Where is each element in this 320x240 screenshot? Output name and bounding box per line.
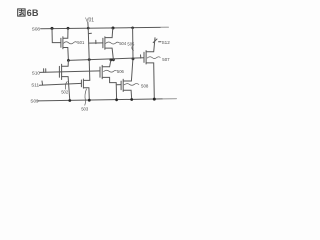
tick on S11 wire xyxy=(41,81,44,85)
svg-text:V01: V01 xyxy=(85,17,94,23)
501 gate bar xyxy=(60,38,62,47)
svg-text:504: 504 xyxy=(119,41,127,46)
node dot bottom rail at 502 source xyxy=(68,99,71,102)
wire S08 / top rail V01 xyxy=(41,27,169,28)
wire output node vertical (top rail to rail2 to 503 drain) xyxy=(88,28,90,80)
transistor Q501 xyxy=(52,28,68,60)
504 channel bar xyxy=(104,37,106,50)
node dot rail2 at 505/508 vertical xyxy=(132,58,135,61)
svg-text:502: 502 xyxy=(61,90,69,95)
506 drain arm xyxy=(102,60,111,67)
wire 507 gate from rail2 xyxy=(143,57,145,59)
501 source arm xyxy=(63,48,68,61)
502 gate bar xyxy=(58,66,60,77)
leader squiggle 507 xyxy=(147,57,160,59)
node dot bottom rail at 507 source xyxy=(153,98,156,101)
wire fade bottom rail right end xyxy=(163,98,177,100)
504 gate bar xyxy=(102,38,104,47)
504 drain arm xyxy=(105,28,113,37)
502 source arm xyxy=(62,77,70,101)
507 gate bar xyxy=(143,52,145,62)
503 drain arm xyxy=(84,79,90,81)
svg-text:505: 505 xyxy=(127,42,135,47)
node dot top rail at 505 vertical xyxy=(131,27,134,30)
node dot top rail at 501 gate tap xyxy=(51,27,54,30)
node dot rail2 at 501/502 xyxy=(67,59,70,62)
transistor Q507 xyxy=(144,38,155,99)
tick on 507 gate wire xyxy=(140,55,142,58)
wire fade top rail right end xyxy=(161,26,169,28)
wire 504 gate tap xyxy=(89,42,103,44)
leader squiggle 506 xyxy=(104,70,117,72)
svg-text:508: 508 xyxy=(141,84,149,89)
svg-text:503: 503 xyxy=(81,107,89,112)
tick pair on S10 wire xyxy=(43,69,45,73)
svg-text:6B: 6B xyxy=(27,8,39,18)
508 source arm xyxy=(123,90,131,99)
leader 502 xyxy=(65,82,67,90)
transistor Q503 xyxy=(81,79,89,100)
leader squiggle 501 xyxy=(64,42,77,44)
507 drain arm to S12 stub xyxy=(146,38,155,52)
wire 501 gate from S08 tap xyxy=(52,28,61,42)
502 channel bar xyxy=(61,64,63,79)
node dot top rail at 501 drain xyxy=(67,27,70,30)
506 source arm with jog xyxy=(102,77,116,99)
508 drain arm xyxy=(123,59,133,81)
wire S11 to 503 gate xyxy=(39,83,81,85)
node dot top rail at output node vertical xyxy=(87,27,90,30)
leader squiggle 508 xyxy=(124,84,139,86)
node dot rail2 at 506 drain xyxy=(110,59,113,62)
transistor Q506 xyxy=(100,60,117,100)
504 source arm xyxy=(105,48,113,60)
wire 508 gate tap xyxy=(116,84,121,86)
node dot rail2 at 504 source xyxy=(112,58,115,61)
503 source arm xyxy=(84,88,90,101)
leader squiggle 505 xyxy=(132,47,134,51)
title 图6B xyxy=(18,9,25,16)
503 gate bar xyxy=(80,80,82,87)
node dot bottom rail at 503 source xyxy=(88,99,91,102)
tick on 504 gate wire xyxy=(95,40,97,43)
501 channel bar xyxy=(62,37,64,49)
wire S10 to gates of 502 and 506 xyxy=(40,71,100,73)
transistor Q508 xyxy=(121,59,133,99)
node dot rail2 at 503 drain vertical xyxy=(88,58,91,61)
svg-text:S10: S10 xyxy=(32,70,41,75)
506 gate bar xyxy=(99,67,101,77)
dash before S12 xyxy=(159,41,161,43)
wire second rail (output node) xyxy=(68,58,143,61)
wire S09 bottom rail xyxy=(38,99,177,101)
svg-text:507: 507 xyxy=(162,57,170,62)
508 channel bar xyxy=(122,79,124,91)
wire V01 leader to top rail xyxy=(87,22,89,28)
transistor Q504 xyxy=(103,28,114,60)
node dot bottom rail at 508 source xyxy=(130,98,133,101)
tick on S12 stub xyxy=(153,39,157,43)
svg-text:S11: S11 xyxy=(31,82,39,87)
wire 505 vertical (top rail to rail2) xyxy=(132,28,134,59)
transistor Q502 xyxy=(59,60,69,100)
leader squiggle 504 xyxy=(106,42,119,44)
svg-text:501: 501 xyxy=(77,40,85,45)
503 channel bar xyxy=(82,79,84,88)
508 gate bar xyxy=(120,81,122,90)
506 channel bar xyxy=(101,65,103,78)
node dot top rail at 504 drain xyxy=(112,27,115,30)
leader 503 xyxy=(85,89,87,105)
tick on output node vertical xyxy=(89,32,92,34)
507 source arm xyxy=(146,63,154,99)
svg-text:S12: S12 xyxy=(162,40,171,45)
svg-text:S08: S08 xyxy=(32,27,41,32)
507 channel bar xyxy=(145,51,147,64)
502 drain arm xyxy=(62,60,69,66)
node dot bottom rail at 506 source jog xyxy=(115,98,118,101)
svg-text:506: 506 xyxy=(117,69,125,74)
501 drain arm xyxy=(63,28,68,38)
